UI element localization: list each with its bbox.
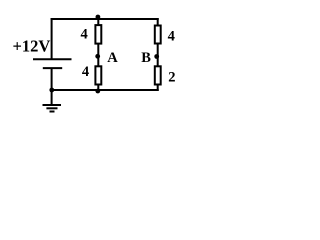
resistor R2 value 4 (bottom middle) <box>95 66 101 84</box>
svg-text:A: A <box>107 50 118 66</box>
svg-text:4: 4 <box>82 64 89 80</box>
wire: ground stem <box>51 90 53 105</box>
wire: middle branch lower lead <box>97 84 99 90</box>
wire: middle branch between node A and R2 <box>97 57 99 67</box>
junction dot: battery to bottom rail <box>49 88 54 93</box>
resistor R1 value 4 (top middle) <box>95 25 101 43</box>
wire: battery negative lead <box>51 68 53 91</box>
wire: middle branch upper lead <box>97 18 99 26</box>
wire: right branch upper lead <box>157 18 159 27</box>
resistor R3 value 4 (top right) <box>155 26 161 44</box>
wire: right branch between node B and R4 <box>157 57 159 67</box>
ground symbol bar 3 <box>50 111 55 113</box>
svg-text:4: 4 <box>168 29 175 45</box>
ground symbol bar 1 <box>43 104 62 106</box>
junction dot: middle branch to bottom rail <box>95 89 100 94</box>
wire: top rail <box>51 18 159 20</box>
node B junction dot <box>154 54 159 59</box>
wire: right branch lower lead <box>157 84 159 91</box>
svg-text:+12V: +12V <box>13 37 51 56</box>
wire: right branch between R3 and node B <box>157 43 159 57</box>
svg-text:2: 2 <box>168 70 175 86</box>
ground symbol bar 2 <box>46 107 57 109</box>
battery +12V negative plate <box>43 67 62 69</box>
svg-text:B: B <box>141 50 151 66</box>
node A junction dot <box>95 54 100 59</box>
svg-text:4: 4 <box>81 27 88 43</box>
wire: bottom rail <box>51 89 159 91</box>
battery +12V positive plate <box>33 58 72 60</box>
junction dot: top rail to middle branch <box>96 15 101 20</box>
wire: battery positive lead <box>51 18 53 60</box>
resistor R4 value 2 (bottom right) <box>155 66 161 84</box>
wire: middle branch between R1 and node A <box>97 44 99 57</box>
